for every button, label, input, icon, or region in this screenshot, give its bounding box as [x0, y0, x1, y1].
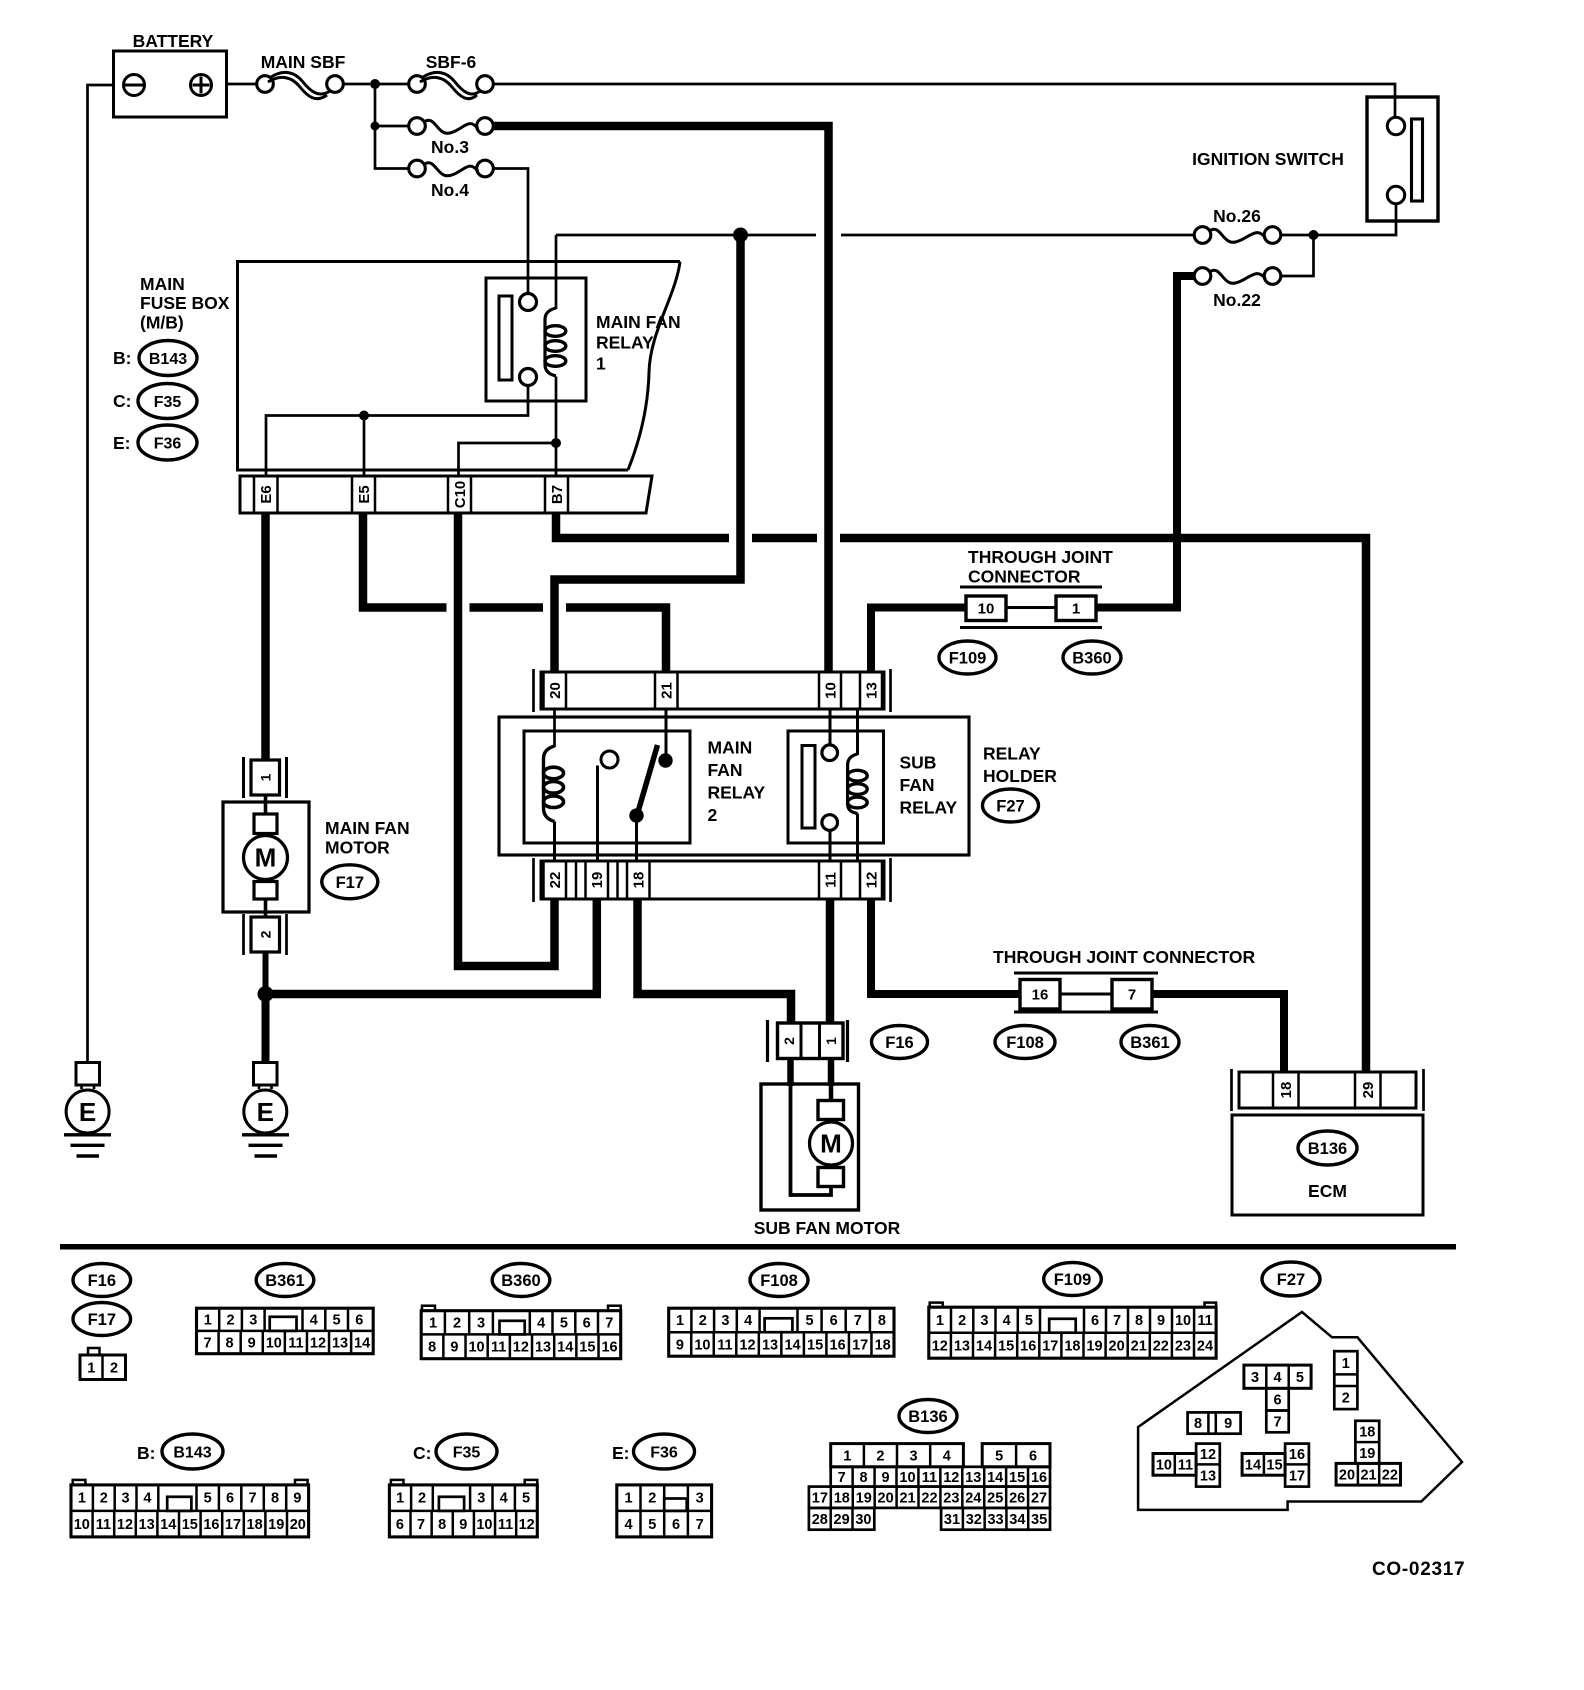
node E5 branch	[359, 411, 369, 421]
svg-text:SBF-6: SBF-6	[426, 52, 477, 72]
svg-text:9: 9	[450, 1340, 458, 1356]
svg-text:F108: F108	[1006, 1034, 1044, 1052]
wire junction drop to No.4	[375, 126, 409, 169]
svg-text:E6: E6	[258, 485, 275, 503]
svg-text:6: 6	[672, 1517, 680, 1533]
svg-text:B136: B136	[1308, 1140, 1347, 1158]
svg-text:27: 27	[1031, 1490, 1047, 1506]
svg-text:3: 3	[477, 1316, 485, 1332]
svg-text:19: 19	[856, 1490, 872, 1506]
main fan relay 1 contact bar	[499, 296, 512, 380]
ECM terminal strip	[1239, 1072, 1416, 1108]
svg-text:7: 7	[1273, 1415, 1281, 1431]
svg-text:16: 16	[1289, 1447, 1305, 1463]
sub fan motor connector	[766, 1020, 769, 1062]
F27 cells 20 21 22	[1336, 1463, 1400, 1485]
svg-text:17: 17	[812, 1490, 828, 1506]
wire junction to relay holder terminal 20 (thick)	[555, 238, 741, 672]
svg-text:SUB: SUB	[900, 753, 937, 773]
svg-text:11: 11	[96, 1517, 111, 1533]
wire ignition circuit continuation after crossover	[841, 234, 1194, 237]
connector ref B361 lower	[1121, 1026, 1179, 1059]
ECM strip rails	[1230, 1069, 1233, 1111]
svg-text:(M/B): (M/B)	[140, 313, 184, 333]
svg-text:16: 16	[1032, 986, 1049, 1003]
ignition switch box	[1367, 97, 1438, 221]
connector F108 pinout	[669, 1308, 894, 1356]
svg-text:20: 20	[1109, 1339, 1125, 1355]
connector ref F108 pinout label	[750, 1264, 808, 1297]
wire terminal 12 to TJC 16 (thick)	[871, 899, 1020, 994]
connector B136 pinout row 2	[831, 1467, 1050, 1487]
wire battery positive to MAIN SBF	[227, 83, 258, 86]
svg-text:4: 4	[625, 1517, 633, 1533]
sub fan motor internal wire 1	[829, 1059, 834, 1101]
svg-text:RELAY: RELAY	[900, 798, 958, 818]
svg-text:2: 2	[453, 1316, 461, 1332]
battery BATTERY box	[114, 51, 227, 117]
svg-text:FUSE BOX: FUSE BOX	[140, 293, 230, 313]
main fan relay 2 common to terminal 19 wire	[596, 766, 599, 862]
svg-text:12: 12	[513, 1340, 529, 1356]
svg-text:18: 18	[1359, 1425, 1375, 1441]
svg-text:18: 18	[247, 1517, 263, 1533]
svg-text:18: 18	[834, 1490, 850, 1506]
ground bus wire to terminal 19 (thick)	[266, 990, 602, 999]
connector ref F16 motor	[872, 1026, 928, 1059]
sub fan motor armature	[810, 1122, 853, 1165]
svg-text:1: 1	[429, 1316, 437, 1332]
svg-text:10: 10	[899, 1470, 915, 1486]
svg-text:12: 12	[739, 1338, 755, 1354]
F27 cells 12 13	[1196, 1444, 1220, 1487]
wire No.26 to node	[1281, 234, 1314, 237]
svg-text:11: 11	[922, 1470, 937, 1486]
through joint connector lower body	[1014, 972, 1158, 975]
main fan motor connector terminal 2	[242, 914, 245, 955]
main fan relay 2 switch blade	[637, 745, 658, 817]
battery positive terminal	[191, 75, 212, 96]
svg-text:14: 14	[976, 1339, 992, 1355]
svg-text:MAIN FAN: MAIN FAN	[325, 818, 410, 838]
connector ref F16 pinout label	[73, 1264, 131, 1297]
svg-text:9: 9	[881, 1470, 889, 1486]
svg-text:17: 17	[1042, 1339, 1058, 1355]
F27 cells 10 11	[1153, 1454, 1196, 1476]
connector ref F109 pinout label	[1044, 1263, 1102, 1296]
svg-text:11: 11	[498, 1517, 513, 1533]
svg-text:13: 13	[863, 682, 880, 699]
connector ref F17 pinout label	[73, 1303, 131, 1336]
svg-text:8: 8	[1194, 1416, 1202, 1432]
svg-text:F109: F109	[949, 650, 987, 668]
wire E5 branch drop	[363, 416, 366, 477]
svg-text:5: 5	[522, 1491, 530, 1507]
svg-text:17: 17	[1289, 1469, 1305, 1485]
svg-text:6: 6	[355, 1313, 363, 1329]
svg-text:MAIN SBF: MAIN SBF	[261, 52, 346, 72]
ground E left	[66, 1090, 109, 1133]
svg-text:10: 10	[476, 1517, 492, 1533]
wire ignition circuit to main fan relay 1 coil (net at y 235)	[556, 234, 816, 237]
svg-text:12: 12	[310, 1336, 326, 1352]
svg-text:16: 16	[830, 1338, 846, 1354]
svg-text:4: 4	[310, 1313, 318, 1329]
svg-text:10: 10	[266, 1336, 282, 1352]
connector ref F109 upper	[939, 641, 996, 674]
svg-text:F17: F17	[88, 1311, 116, 1329]
svg-text:11: 11	[717, 1338, 732, 1354]
svg-text:31: 31	[944, 1512, 960, 1528]
svg-text:2: 2	[876, 1448, 884, 1464]
svg-text:No.4: No.4	[431, 180, 469, 200]
svg-text:6: 6	[583, 1316, 591, 1332]
sub fan motor box	[761, 1084, 859, 1210]
svg-text:8: 8	[878, 1313, 886, 1329]
svg-text:FAN: FAN	[900, 775, 935, 795]
connector ref F108 lower	[995, 1026, 1055, 1059]
relay holder top strip rails	[532, 669, 535, 712]
svg-text:21: 21	[1360, 1467, 1376, 1483]
through joint connector terminal 7 box	[1112, 980, 1152, 1010]
svg-text:M: M	[820, 1129, 842, 1159]
svg-text:12: 12	[519, 1517, 535, 1533]
wire junction to No.3	[375, 125, 409, 128]
svg-text:2: 2	[781, 1037, 797, 1045]
svg-text:1: 1	[258, 773, 274, 781]
svg-text:19: 19	[1086, 1339, 1102, 1355]
svg-text:C:: C:	[113, 391, 131, 411]
svg-text:4: 4	[943, 1448, 951, 1464]
ignition switch upper contact	[1387, 117, 1404, 134]
svg-text:B361: B361	[1130, 1034, 1169, 1052]
node junction No.3 branch	[371, 122, 380, 131]
svg-text:19: 19	[268, 1517, 284, 1533]
svg-text:F16: F16	[885, 1034, 913, 1052]
wire battery negative to ground drop	[88, 85, 114, 1063]
wire node to No.22	[1281, 235, 1314, 276]
svg-text:16: 16	[203, 1517, 219, 1533]
svg-text:F17: F17	[336, 874, 364, 892]
svg-text:8: 8	[226, 1336, 234, 1352]
node junction battery feed	[370, 79, 380, 89]
svg-text:13: 13	[535, 1340, 551, 1356]
svg-text:M: M	[255, 843, 277, 873]
svg-text:C:: C:	[413, 1443, 431, 1463]
F27 cells 1 2	[1334, 1351, 1357, 1409]
main fan relay 1 box	[486, 278, 586, 401]
svg-text:11: 11	[1178, 1458, 1193, 1474]
svg-text:F35: F35	[453, 1445, 481, 1462]
svg-text:10: 10	[1175, 1313, 1191, 1329]
svg-text:16: 16	[601, 1340, 617, 1356]
node ignition feed junction	[1309, 230, 1319, 240]
svg-text:2: 2	[418, 1491, 426, 1507]
svg-text:19: 19	[1359, 1446, 1375, 1462]
svg-text:E:: E:	[113, 433, 131, 453]
svg-text:9: 9	[248, 1336, 256, 1352]
svg-text:20: 20	[1339, 1467, 1355, 1483]
svg-text:7: 7	[203, 1336, 211, 1352]
svg-text:E5: E5	[356, 485, 373, 503]
svg-text:MAIN FAN: MAIN FAN	[596, 312, 681, 332]
svg-text:7: 7	[1113, 1313, 1121, 1329]
wire E5 to relay holder terminal 21 (thick)	[363, 513, 447, 608]
wire C10 to relay holder terminal 22 (thick)	[458, 513, 555, 966]
svg-text:6: 6	[396, 1517, 404, 1533]
connector B143 pinout	[73, 1480, 86, 1485]
svg-text:4: 4	[537, 1316, 545, 1332]
svg-text:3: 3	[910, 1448, 918, 1464]
svg-text:12: 12	[943, 1470, 959, 1486]
main fan motor box	[223, 802, 309, 912]
svg-text:5: 5	[333, 1313, 341, 1329]
svg-text:1: 1	[1342, 1356, 1350, 1372]
connector F27 pinout outline	[1138, 1312, 1462, 1510]
svg-text:B:: B:	[137, 1443, 155, 1463]
svg-text:14: 14	[784, 1338, 800, 1354]
svg-text:29: 29	[834, 1512, 850, 1528]
svg-text:C10: C10	[452, 481, 469, 509]
svg-text:5: 5	[204, 1491, 212, 1507]
svg-text:12: 12	[1200, 1447, 1216, 1463]
svg-text:26: 26	[1009, 1490, 1025, 1506]
svg-text:2: 2	[1342, 1391, 1350, 1407]
svg-text:7: 7	[854, 1313, 862, 1329]
connector ref F27	[983, 789, 1039, 822]
fuse SBF-6	[409, 76, 426, 93]
svg-text:7: 7	[838, 1470, 846, 1486]
wire E5 segment after C10 crossover (thick)	[470, 603, 544, 612]
main fan relay 1 coil feed wire	[555, 235, 558, 309]
svg-text:MOTOR: MOTOR	[325, 838, 390, 858]
main fan relay 2 coil wire from terminal 20	[553, 709, 556, 747]
svg-text:25: 25	[987, 1490, 1003, 1506]
node ground junction	[258, 986, 274, 1002]
ground E left connector	[76, 1063, 100, 1086]
svg-text:4: 4	[744, 1313, 752, 1329]
svg-text:29: 29	[1360, 1082, 1377, 1099]
ground E motor connector	[254, 1063, 278, 1086]
svg-text:22: 22	[1153, 1339, 1169, 1355]
svg-text:HOLDER: HOLDER	[983, 766, 1057, 786]
connector B361 pinout	[197, 1308, 374, 1354]
svg-text:7: 7	[605, 1316, 613, 1332]
svg-text:15: 15	[807, 1338, 823, 1354]
svg-text:20: 20	[878, 1490, 894, 1506]
svg-text:18: 18	[1278, 1082, 1295, 1099]
main fan motor upper brush	[254, 814, 277, 834]
svg-text:8: 8	[1135, 1313, 1143, 1329]
svg-text:CONNECTOR: CONNECTOR	[968, 567, 1081, 587]
ground E motor	[244, 1090, 287, 1133]
svg-text:14: 14	[1245, 1458, 1261, 1474]
main fan relay 1 coil to B7 wire	[555, 377, 558, 477]
svg-text:8: 8	[860, 1470, 868, 1486]
svg-text:33: 33	[987, 1512, 1003, 1528]
svg-text:8: 8	[271, 1491, 279, 1507]
main fan relay 1 upper contact	[520, 294, 537, 311]
svg-text:10: 10	[468, 1340, 484, 1356]
svg-text:2: 2	[100, 1491, 108, 1507]
main fuse box outline	[238, 262, 681, 471]
main fan motor armature	[244, 836, 288, 880]
svg-text:14: 14	[354, 1336, 370, 1352]
svg-text:MAIN: MAIN	[140, 274, 185, 294]
svg-text:2: 2	[648, 1491, 656, 1507]
svg-text:CO-02317: CO-02317	[1372, 1559, 1465, 1580]
svg-text:1: 1	[843, 1448, 851, 1464]
svg-text:FAN: FAN	[708, 760, 743, 780]
sub fan relay box	[788, 731, 884, 843]
relay holder top terminal strip	[541, 672, 884, 709]
svg-text:13: 13	[762, 1338, 778, 1354]
connector ref F17 motor	[322, 865, 378, 899]
svg-text:9: 9	[293, 1491, 301, 1507]
svg-text:No.26: No.26	[1213, 206, 1261, 226]
svg-text:F27: F27	[996, 798, 1024, 816]
ignition switch lower contact	[1387, 186, 1404, 203]
connector ref B360 upper	[1063, 641, 1121, 674]
svg-text:34: 34	[1009, 1512, 1025, 1528]
wire TJC 7 to ECM terminal 18 (thick)	[1152, 994, 1284, 1072]
through joint connector terminal 16 box	[1020, 980, 1060, 1010]
main fan relay 1 coil	[545, 308, 556, 376]
fuse No.3	[409, 118, 426, 135]
svg-text:7: 7	[1128, 986, 1136, 1003]
svg-text:RELAY: RELAY	[708, 783, 766, 803]
svg-text:28: 28	[812, 1512, 828, 1528]
svg-text:8: 8	[438, 1517, 446, 1533]
main fuse box terminal strip	[240, 476, 652, 513]
svg-text:8: 8	[428, 1340, 436, 1356]
svg-text:B360: B360	[501, 1272, 540, 1290]
svg-text:5: 5	[560, 1316, 568, 1332]
svg-text:3: 3	[721, 1313, 729, 1329]
svg-text:5: 5	[1025, 1313, 1033, 1329]
svg-text:F108: F108	[760, 1272, 798, 1290]
wire junction drop to No.3	[374, 84, 377, 126]
svg-text:13: 13	[139, 1517, 155, 1533]
main fan relay 2 blade to terminal 18 wire	[635, 822, 638, 861]
svg-text:SUB FAN MOTOR: SUB FAN MOTOR	[754, 1218, 901, 1238]
connector F35 pinout	[391, 1480, 404, 1485]
wire MAIN SBF to junction	[343, 83, 370, 86]
svg-text:B361: B361	[265, 1272, 304, 1290]
svg-text:1: 1	[78, 1491, 86, 1507]
sub fan relay coil to terminal 12 wire	[856, 814, 859, 862]
svg-text:B:: B:	[113, 348, 131, 368]
svg-text:14: 14	[987, 1470, 1003, 1486]
svg-text:2: 2	[258, 930, 274, 938]
F27 cells 16 17	[1285, 1444, 1309, 1487]
svg-text:E: E	[257, 1097, 274, 1127]
svg-text:22: 22	[547, 872, 564, 889]
wire No.4 to main fan relay 1 contact	[493, 169, 528, 294]
sub fan relay contact bar	[802, 746, 815, 829]
svg-text:24: 24	[1197, 1339, 1213, 1355]
svg-text:12: 12	[932, 1339, 948, 1355]
ECM box	[1232, 1115, 1423, 1215]
sub fan relay upper contact	[822, 745, 838, 761]
svg-text:IGNITION SWITCH: IGNITION SWITCH	[1192, 149, 1344, 169]
sub fan motor lower brush	[818, 1168, 844, 1187]
main fan motor internal wires	[264, 795, 268, 814]
F27 cells 18 19	[1355, 1421, 1379, 1464]
svg-text:14: 14	[557, 1340, 573, 1356]
sub fan motor internal wire 2	[791, 1059, 832, 1196]
svg-text:THROUGH JOINT: THROUGH JOINT	[968, 547, 1113, 567]
connector B360 pinout	[422, 1306, 435, 1311]
svg-text:3: 3	[249, 1313, 257, 1329]
wire ignition switch to No.26 node	[1318, 204, 1396, 235]
svg-text:32: 32	[966, 1512, 982, 1528]
svg-text:F27: F27	[1277, 1271, 1305, 1289]
sub fan relay lower contact	[822, 815, 838, 831]
svg-text:13: 13	[1200, 1469, 1216, 1485]
svg-text:F36: F36	[650, 1445, 678, 1462]
svg-text:5: 5	[1296, 1370, 1304, 1386]
sub fan relay coil	[848, 754, 858, 814]
wire ground junction to ground E (thick)	[262, 994, 270, 1063]
F27 cells 14 15	[1242, 1454, 1285, 1476]
svg-text:18: 18	[875, 1338, 891, 1354]
svg-text:3: 3	[1251, 1370, 1259, 1386]
wire No.3 to relay holder terminal 10 (thick)	[493, 126, 829, 672]
svg-text:1: 1	[1072, 601, 1080, 618]
sub fan relay contact wire from terminal 10	[829, 709, 832, 744]
svg-text:21: 21	[1131, 1339, 1147, 1355]
wire main fan motor to ground junction	[263, 952, 269, 994]
wire B7 segment between crossovers (thick)	[752, 534, 817, 543]
svg-text:THROUGH JOINT CONNECTOR: THROUGH JOINT CONNECTOR	[993, 947, 1256, 967]
svg-text:1: 1	[596, 354, 606, 374]
F27 cells 8 9	[1188, 1412, 1241, 1433]
main fan motor lower brush	[254, 882, 277, 900]
svg-text:1: 1	[625, 1491, 633, 1507]
F27 cell 6	[1266, 1388, 1288, 1410]
svg-text:1: 1	[204, 1313, 212, 1329]
svg-text:10: 10	[822, 682, 839, 699]
relay holder box	[499, 717, 969, 855]
relay holder bottom strip rails	[532, 858, 535, 902]
svg-text:1: 1	[87, 1360, 95, 1376]
sub fan relay coil wire from terminal 13	[856, 709, 859, 755]
svg-text:12: 12	[863, 872, 880, 889]
connector B136 pinout row 4b	[941, 1508, 1050, 1530]
main fan relay 2 box	[524, 731, 690, 843]
connector B136 pinout row 3	[809, 1487, 1050, 1508]
svg-text:15: 15	[1009, 1470, 1025, 1486]
main fan relay 2 common terminal	[601, 751, 618, 768]
svg-text:2: 2	[699, 1313, 707, 1329]
connector B136 pinout row 1	[831, 1444, 964, 1467]
svg-text:1: 1	[676, 1313, 684, 1329]
svg-text:B7: B7	[549, 485, 566, 504]
svg-text:F36: F36	[154, 436, 182, 453]
svg-text:11: 11	[822, 872, 839, 888]
svg-text:12: 12	[117, 1517, 133, 1533]
svg-text:4: 4	[143, 1491, 151, 1507]
svg-text:B143: B143	[149, 351, 187, 368]
svg-text:3: 3	[696, 1491, 704, 1507]
main fan relay 1 lower contact	[520, 369, 537, 386]
main fan relay 2 coil to terminal 22 wire	[553, 822, 556, 862]
connector ref B360 pinout label	[492, 1264, 550, 1297]
svg-text:6: 6	[1091, 1313, 1099, 1329]
connector B136 pinout row 4a	[809, 1508, 874, 1530]
svg-text:E:: E:	[612, 1443, 630, 1463]
